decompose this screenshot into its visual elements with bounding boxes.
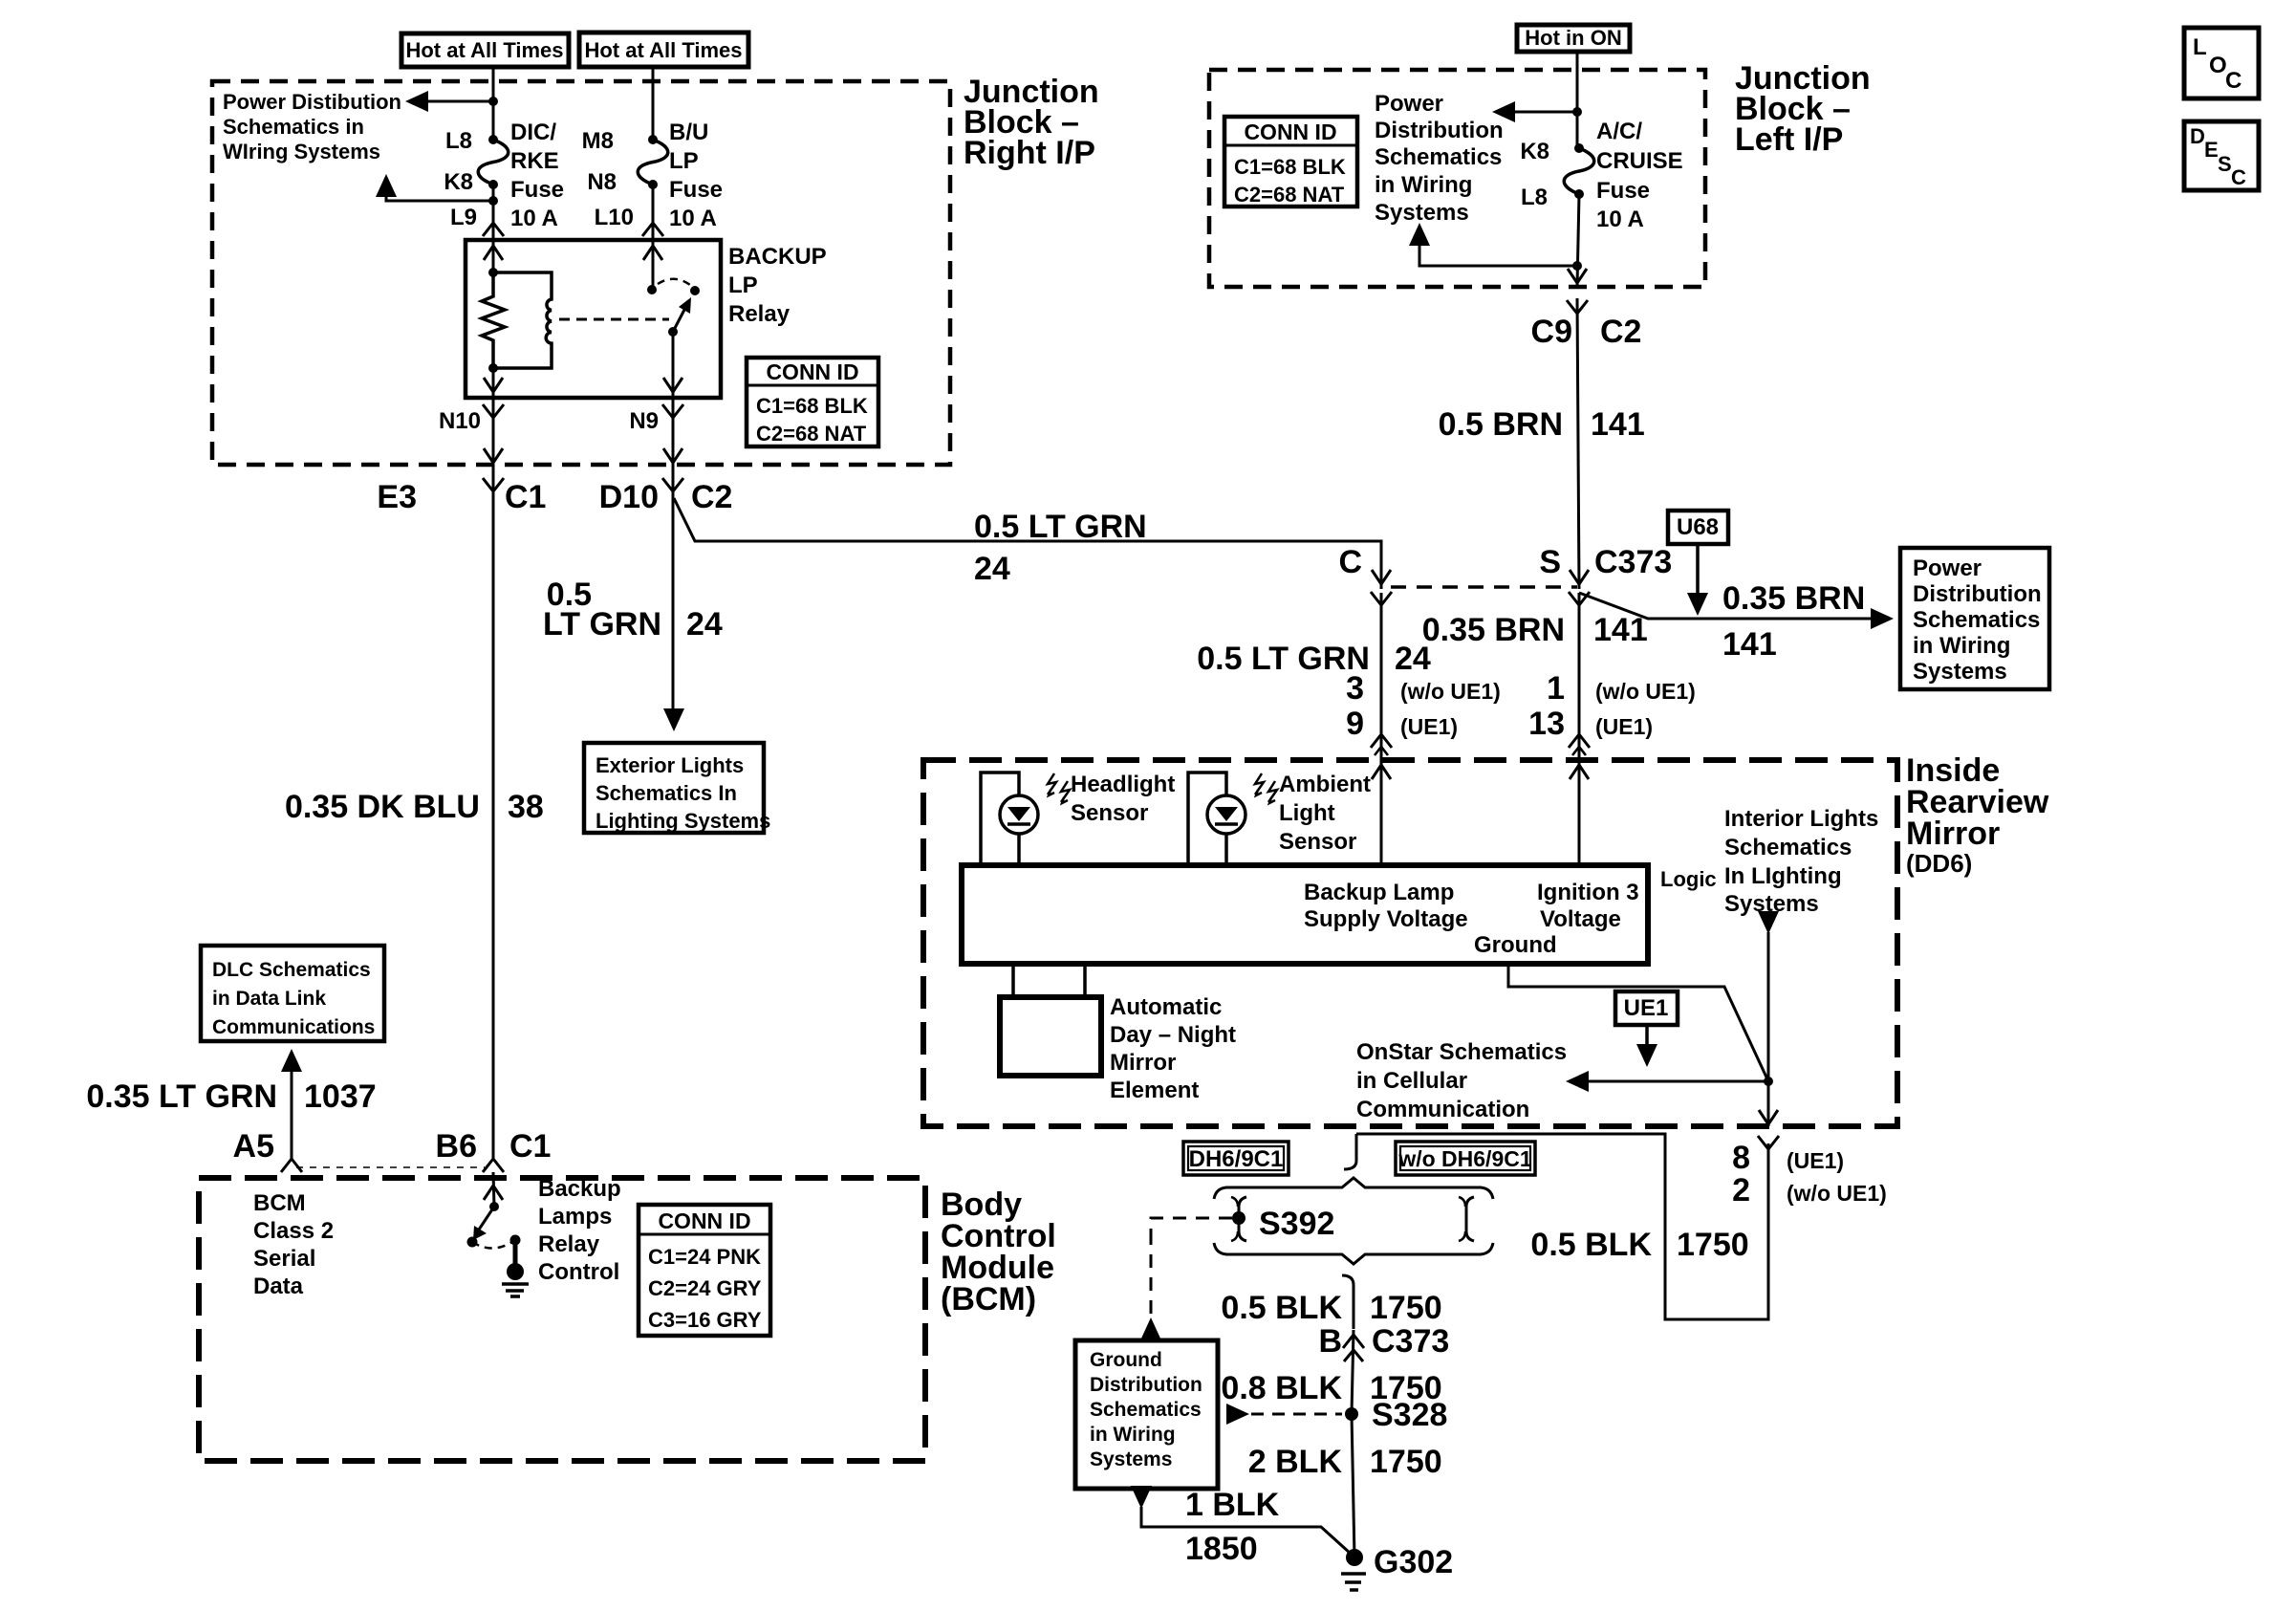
relay switch output wire xyxy=(672,332,675,398)
svg-text:L9: L9 xyxy=(450,205,477,230)
wire: Hot in ON to fuse A/C CRUISE xyxy=(1576,52,1579,148)
connector C373 pin B xyxy=(1318,1323,1449,1361)
svg-text:M8: M8 xyxy=(582,128,614,154)
svg-text:CONN ID: CONN ID xyxy=(1244,120,1336,144)
svg-text:Control: Control xyxy=(538,1259,619,1285)
connector N10 xyxy=(439,398,504,465)
svg-text:Headlight: Headlight xyxy=(1071,772,1175,797)
splice option brace (upper) xyxy=(1214,1178,1493,1199)
labels on mirror pin 3/9 wire xyxy=(1197,641,1501,742)
svg-text:N8: N8 xyxy=(587,169,617,195)
relay coil feed wire (left) xyxy=(492,240,495,272)
connector A5 xyxy=(233,1128,302,1172)
svg-text:O: O xyxy=(2209,53,2227,78)
svg-text:OnStar Schematics: OnStar Schematics xyxy=(1356,1039,1567,1065)
svg-text:(BCM): (BCM) xyxy=(941,1281,1036,1317)
connector C1 pin E3 xyxy=(377,478,546,515)
svg-text:L8: L8 xyxy=(1521,185,1548,210)
relay switch travel arc (dashed) xyxy=(658,279,690,285)
svg-text:141: 141 xyxy=(1591,406,1645,443)
relay switch fixed contact xyxy=(647,285,657,294)
svg-text:C1=24 PNK: C1=24 PNK xyxy=(648,1245,761,1269)
wire: Hot at All Times to fuse DIC/RKE xyxy=(492,67,495,140)
svg-text:C373: C373 xyxy=(1372,1323,1449,1360)
DESC index box xyxy=(2184,121,2259,190)
relay switch open contact xyxy=(690,286,700,295)
svg-text:Systems: Systems xyxy=(1913,659,2007,685)
svg-text:Communications: Communications xyxy=(212,1016,375,1038)
svg-text:Supply Voltage: Supply Voltage xyxy=(1304,906,1468,932)
svg-text:Communication: Communication xyxy=(1356,1097,1529,1122)
svg-text:Schematics: Schematics xyxy=(1724,835,1852,860)
svg-text:38: 38 xyxy=(508,789,544,825)
ambient light sensor label xyxy=(1279,772,1371,855)
svg-text:Logic: Logic xyxy=(1660,867,1717,891)
svg-text:1850: 1850 xyxy=(1185,1531,1258,1567)
svg-text:141: 141 xyxy=(1722,626,1777,663)
svg-text:C: C xyxy=(2225,68,2242,94)
relay switch pivot xyxy=(668,327,678,337)
svg-text:Right I/P: Right I/P xyxy=(964,135,1095,171)
svg-text:C2=24 GRY: C2=24 GRY xyxy=(648,1276,762,1300)
svg-text:C3=16 GRY: C3=16 GRY xyxy=(648,1308,762,1332)
svg-text:Schematics: Schematics xyxy=(1090,1399,1202,1421)
BCM switch input arrow xyxy=(484,1186,503,1200)
svg-text:BCM: BCM xyxy=(253,1190,306,1216)
svg-text:A/C/: A/C/ xyxy=(1596,119,1642,144)
relay coil output wire xyxy=(492,368,495,398)
inline connector C373 (dashed) xyxy=(1391,585,1577,589)
svg-text:L: L xyxy=(2193,34,2207,60)
reference box: Ground Distribution Schematics in Wiring Systems xyxy=(1075,1340,1218,1489)
svg-text:Systems: Systems xyxy=(1090,1448,1172,1470)
svg-text:A5: A5 xyxy=(233,1128,274,1165)
power label: Hot at All Times (left) xyxy=(401,33,569,67)
OnStar reference text xyxy=(1356,1039,1567,1122)
svg-text:LP: LP xyxy=(728,272,758,298)
connector N9 xyxy=(629,398,683,465)
svg-text:0.35 BRN: 0.35 BRN xyxy=(1722,580,1865,617)
svg-text:L10: L10 xyxy=(595,205,634,230)
svg-text:Hot at All Times: Hot at All Times xyxy=(584,38,742,62)
svg-text:C373: C373 xyxy=(1594,544,1672,580)
fuse name: A/C/ CRUISE Fuse 10 A xyxy=(1596,119,1683,232)
svg-text:CONN ID: CONN ID xyxy=(766,359,858,384)
junction block - left I/P (dashed box) xyxy=(1209,70,1705,287)
svg-text:D: D xyxy=(2190,124,2205,148)
svg-text:141: 141 xyxy=(1593,612,1648,648)
splice terminal (left, S392) xyxy=(1239,1197,1246,1241)
wire 2 BLK 1750 xyxy=(1352,1414,1354,1557)
mirror exit arrow at bottom edge xyxy=(1759,1110,1778,1124)
svg-text:Serial: Serial xyxy=(253,1246,315,1272)
ambient light sensor xyxy=(1188,773,1277,865)
wire label 0.5 LT GRN (horizontal) xyxy=(974,509,1147,587)
option flag UE1 xyxy=(1615,991,1678,1067)
connector: mirror pin 1/13 xyxy=(1569,734,1590,779)
reference box: Exterior Lights Schematics In Lighting Systems xyxy=(584,743,770,833)
svg-text:Interior Lights: Interior Lights xyxy=(1724,806,1878,832)
wire 0.5 BLK 1750 (mirror pin 8/2 loop) xyxy=(1356,1134,1768,1319)
svg-text:C9: C9 xyxy=(1531,314,1572,350)
branch labels 0.35 BRN 141 xyxy=(1722,580,1865,663)
svg-text:in Wiring: in Wiring xyxy=(1375,172,1472,198)
wire label 0.5 BLK 1750 (right loop) xyxy=(1530,1227,1748,1263)
connector: mirror pin 8/2 xyxy=(1732,1136,1887,1208)
CONN ID table (right I/P) xyxy=(747,358,878,446)
connector C1 pin B6 xyxy=(436,1128,552,1172)
wire: fuse N8 to connector L10 xyxy=(652,185,655,240)
reference box: Power Distribution Schematics in Wiring Systems (right) xyxy=(1900,548,2049,689)
svg-text:24: 24 xyxy=(686,606,723,642)
svg-text:Systems: Systems xyxy=(1375,200,1469,226)
ground wire inside mirror xyxy=(1508,964,1768,1081)
node: junction to power distribution arrow (upper) xyxy=(1572,107,1582,117)
svg-text:C1: C1 xyxy=(509,1128,551,1165)
svg-text:G302: G302 xyxy=(1374,1544,1453,1580)
svg-text:C: C xyxy=(2231,165,2246,189)
relay: BACKUP LP Relay box xyxy=(466,240,721,398)
relay coil (winding) xyxy=(493,272,552,368)
relay switch blade with arrow xyxy=(673,297,691,332)
connector C373 pin S xyxy=(1539,544,1672,605)
LOC index box xyxy=(2184,28,2259,98)
svg-text:in Cellular: in Cellular xyxy=(1356,1068,1467,1094)
svg-text:WIring Systems: WIring Systems xyxy=(223,140,380,163)
svg-text:0.8 BLK: 0.8 BLK xyxy=(1221,1370,1342,1406)
OnStar wire with arrow xyxy=(1566,1071,1768,1092)
svg-text:Distribution: Distribution xyxy=(1913,581,2042,607)
power label: Hot at All Times (right) xyxy=(579,33,748,67)
labels on mirror pin 1/13 wire xyxy=(1422,612,1696,742)
connector: mirror pin 3/9 xyxy=(1371,734,1392,779)
svg-text:Fuse: Fuse xyxy=(510,177,564,203)
svg-text:in Wiring: in Wiring xyxy=(1090,1424,1176,1446)
svg-text:2: 2 xyxy=(1732,1172,1750,1208)
wire 0.35 BRN 141 (C373 S to mirror pin 1/13) xyxy=(1578,593,1581,865)
fuse name: DIC/RKE Fuse 10 A xyxy=(510,120,564,231)
wire: fuse L8 down to box edge xyxy=(1577,194,1579,287)
svg-text:0.35 DK BLU: 0.35 DK BLU xyxy=(285,789,480,825)
CONN ID table (left I/P) xyxy=(1224,117,1357,207)
svg-text:0.5 LT GRN: 0.5 LT GRN xyxy=(974,509,1147,545)
svg-text:Backup: Backup xyxy=(538,1176,621,1202)
wire below lower brace with hook xyxy=(1342,1275,1354,1329)
connector C2 pin C9 xyxy=(1531,300,1642,350)
relay resistor (zigzag) xyxy=(482,272,505,368)
Inside Rearview Mirror (dashed box) xyxy=(923,760,1897,1126)
dashed link S392 to ground distribution reference xyxy=(1151,1218,1232,1231)
fuse name: B/U LP Fuse 10 A xyxy=(669,120,723,231)
mirror element label xyxy=(1110,994,1236,1103)
svg-text:K8: K8 xyxy=(444,169,473,195)
BCM class 2 serial data label xyxy=(253,1190,334,1299)
option box DH6/9C1 xyxy=(1183,1142,1289,1175)
svg-text:CRUISE: CRUISE xyxy=(1596,148,1683,174)
node: mirror ground junction xyxy=(1764,1077,1773,1086)
svg-text:0.35 LT GRN: 0.35 LT GRN xyxy=(86,1078,277,1115)
svg-text:1750: 1750 xyxy=(1370,1444,1442,1480)
svg-text:Data: Data xyxy=(253,1274,304,1299)
node: junction to lower power distribution arrow xyxy=(488,196,498,206)
reference box: DLC Schematics in Data Link Communications xyxy=(201,946,384,1041)
svg-text:9: 9 xyxy=(1346,706,1364,742)
svg-text:E: E xyxy=(2204,138,2219,162)
svg-text:S328: S328 xyxy=(1372,1397,1447,1433)
svg-text:Relay: Relay xyxy=(538,1231,600,1257)
svg-text:LP: LP xyxy=(669,148,699,174)
svg-text:Hot in ON: Hot in ON xyxy=(1525,26,1621,50)
svg-text:0.5 BRN: 0.5 BRN xyxy=(1439,406,1563,443)
mirror title: Inside Rearview Mirror (DD6) xyxy=(1906,752,2049,878)
headlight sensor label xyxy=(1071,772,1175,826)
svg-text:C: C xyxy=(1338,544,1362,580)
svg-text:Lamps: Lamps xyxy=(538,1204,612,1230)
svg-text:Sensor: Sensor xyxy=(1071,800,1148,826)
wire label 0.5 BLK 1750 (below S392) xyxy=(1221,1290,1441,1326)
module pin labels xyxy=(1304,880,1639,958)
relay name: BACKUP LP Relay xyxy=(728,244,827,327)
interior lights reference text xyxy=(1724,806,1878,917)
svg-text:Schematics: Schematics xyxy=(1375,144,1502,170)
svg-text:LT GRN: LT GRN xyxy=(543,606,661,642)
wire label 0.5 LT GRN 24 (vertical) xyxy=(543,577,723,642)
wire 0.5 BRN 141 (C9 to C373 S) xyxy=(1577,298,1579,589)
svg-text:Lighting Systems: Lighting Systems xyxy=(596,809,770,833)
wire/arrow: to power distribution schematics (upper) xyxy=(1492,101,1577,122)
connector L10 xyxy=(595,205,663,236)
svg-text:Distribution: Distribution xyxy=(1375,118,1504,143)
svg-text:Power Distibution: Power Distibution xyxy=(223,90,401,114)
svg-text:0.35 BRN: 0.35 BRN xyxy=(1422,612,1565,648)
svg-text:In LIghting: In LIghting xyxy=(1724,863,1842,889)
relay switch feed wire (right) xyxy=(652,240,655,290)
wire/arrow: to power distribution schematics (lower-left) xyxy=(376,174,493,201)
svg-text:(w/o UE1): (w/o UE1) xyxy=(1595,679,1696,704)
svg-text:Voltage: Voltage xyxy=(1540,906,1621,932)
svg-text:8: 8 xyxy=(1732,1140,1750,1176)
svg-text:13: 13 xyxy=(1528,706,1565,742)
svg-text:1037: 1037 xyxy=(304,1078,377,1115)
wire: fuse K8 to connector L9 xyxy=(492,185,495,240)
fuse DIC/RKE 10 A (pins L8/K8) xyxy=(478,135,509,189)
splice S328 xyxy=(1345,1407,1358,1421)
fuse B/U LP 10 A (pins M8/N8) xyxy=(638,135,668,189)
svg-text:2 BLK: 2 BLK xyxy=(1248,1444,1343,1480)
svg-text:0.5 LT GRN: 0.5 LT GRN xyxy=(1197,641,1370,677)
fuse A/C CRUISE 10 A (pins K8/L8) xyxy=(1564,143,1594,199)
svg-text:C1=68 BLK: C1=68 BLK xyxy=(1234,155,1346,179)
svg-text:Ground: Ground xyxy=(1090,1349,1162,1371)
CONN ID table (BCM) xyxy=(639,1205,770,1336)
junction block right I/P title xyxy=(964,74,1099,171)
svg-text:B: B xyxy=(1318,1323,1342,1360)
svg-text:(UE1): (UE1) xyxy=(1787,1148,1844,1173)
svg-text:Day – Night: Day – Night xyxy=(1110,1022,1236,1048)
svg-text:Mirror: Mirror xyxy=(1110,1050,1176,1076)
svg-text:L8: L8 xyxy=(445,128,472,154)
svg-text:Automatic: Automatic xyxy=(1110,994,1222,1020)
headlight sensor xyxy=(981,773,1070,865)
BCM title xyxy=(941,1186,1056,1317)
ground G302 xyxy=(1346,1549,1363,1566)
svg-text:1: 1 xyxy=(1547,670,1565,707)
svg-text:Class 2: Class 2 xyxy=(253,1218,334,1244)
svg-text:(DD6): (DD6) xyxy=(1906,849,1972,878)
svg-text:U68: U68 xyxy=(1677,514,1719,540)
svg-text:Power: Power xyxy=(1913,555,1982,581)
svg-text:C1: C1 xyxy=(505,479,546,515)
svg-text:UE1: UE1 xyxy=(1624,995,1669,1021)
svg-text:10 A: 10 A xyxy=(510,206,558,231)
svg-text:DH6/9C1: DH6/9C1 xyxy=(1189,1146,1284,1172)
reference text: Power Distribution Schematics in Wiring Systems (left I/P) xyxy=(1375,91,1504,226)
connector C2 pin D10 xyxy=(599,478,733,515)
relay coil-to-blade link (dashed) xyxy=(559,318,669,321)
splice option brace (lower) xyxy=(1214,1243,1493,1264)
svg-text:Schematics In: Schematics In xyxy=(596,781,737,805)
wire 0.8 BLK 1750 xyxy=(1352,1330,1354,1414)
connector C373 pin C xyxy=(1338,544,1392,605)
option box w/o DH6/9C1 xyxy=(1396,1142,1535,1175)
power label: Hot in ON xyxy=(1517,25,1630,52)
wire label 0.35 DK BLU 38 xyxy=(285,789,544,825)
svg-text:CONN ID: CONN ID xyxy=(658,1208,750,1233)
svg-text:3: 3 xyxy=(1346,670,1364,707)
svg-text:B/U: B/U xyxy=(669,120,708,145)
svg-text:Ambient: Ambient xyxy=(1279,772,1371,797)
mirror logic module (solid box) xyxy=(962,865,1648,964)
svg-text:Backup Lamp: Backup Lamp xyxy=(1304,880,1454,905)
svg-text:1 BLK: 1 BLK xyxy=(1185,1487,1280,1523)
svg-text:in Wiring: in Wiring xyxy=(1913,633,2010,659)
wire/arrow: to power distribution schematics (lower) xyxy=(1409,223,1577,266)
wire 0.35 DK BLU 38 (E3/C1 to BCM B6) xyxy=(492,465,495,1159)
svg-text:RKE: RKE xyxy=(510,148,559,174)
svg-text:K8: K8 xyxy=(1520,139,1549,164)
splice terminal (right) xyxy=(1466,1197,1474,1241)
option flag U68 xyxy=(1668,511,1728,616)
svg-text:(w/o UE1): (w/o UE1) xyxy=(1787,1181,1887,1206)
svg-text:1750: 1750 xyxy=(1677,1227,1749,1263)
wire label 0.5 BRN 141 xyxy=(1439,406,1645,443)
svg-text:DLC Schematics: DLC Schematics xyxy=(212,959,371,981)
svg-text:BACKUP: BACKUP xyxy=(728,244,827,270)
BCM internal dashed link A5-B6 xyxy=(296,1166,485,1168)
svg-text:Fuse: Fuse xyxy=(1596,178,1650,204)
svg-text:Exterior Lights: Exterior Lights xyxy=(596,753,744,777)
wire from interior lights reference xyxy=(1758,911,1779,1126)
branch wire 0.35 BRN 141 to power distribution xyxy=(1579,593,1894,629)
wire 0.5 LT GRN 24 (C373 C to mirror pin 3/9) xyxy=(1380,593,1383,865)
dashed link from ground distribution reference to S328 xyxy=(1226,1404,1342,1425)
reference text: Power Distribution Schematics in Wiring Systems (top-left) xyxy=(223,90,401,163)
wire: Hot at All Times to fuse B/U xyxy=(652,67,655,140)
wire 0.5 LT GRN 24 (horizontal branch to mirror pin C) xyxy=(674,498,1381,589)
svg-text:in Data Link: in Data Link xyxy=(212,988,326,1010)
svg-text:Power: Power xyxy=(1375,91,1443,117)
svg-text:Fuse: Fuse xyxy=(669,177,723,203)
junction block - right I/P (dashed box) xyxy=(212,81,950,465)
svg-text:S: S xyxy=(1539,544,1561,580)
junction block left I/P title xyxy=(1735,60,1871,158)
svg-text:Ignition 3: Ignition 3 xyxy=(1537,880,1639,905)
svg-text:Schematics: Schematics xyxy=(1913,607,2040,633)
BCM switch: backup lamps relay control xyxy=(489,1202,499,1211)
svg-text:D10: D10 xyxy=(599,479,659,515)
svg-text:E3: E3 xyxy=(377,479,417,515)
svg-text:(UE1): (UE1) xyxy=(1595,714,1653,739)
svg-text:Hot at All Times: Hot at All Times xyxy=(405,38,563,62)
svg-text:Sensor: Sensor xyxy=(1279,829,1356,855)
svg-text:B6: B6 xyxy=(436,1128,477,1165)
svg-text:Left I/P: Left I/P xyxy=(1735,121,1843,158)
svg-text:w/o DH6/9C1: w/o DH6/9C1 xyxy=(1397,1146,1532,1171)
svg-text:Schematics in: Schematics in xyxy=(223,115,364,139)
svg-text:Relay: Relay xyxy=(728,301,791,327)
svg-text:24: 24 xyxy=(974,551,1010,587)
wire 0.35 LT GRN 1037 (to DLC) xyxy=(281,1049,302,1159)
svg-text:10 A: 10 A xyxy=(669,206,717,231)
svg-text:N9: N9 xyxy=(629,408,659,434)
svg-text:C2=68 NAT: C2=68 NAT xyxy=(756,422,867,446)
svg-text:Light: Light xyxy=(1279,800,1335,826)
svg-text:DIC/: DIC/ xyxy=(510,120,556,145)
svg-text:0.5 BLK: 0.5 BLK xyxy=(1530,1227,1652,1263)
BCM internal ground xyxy=(513,1240,518,1266)
svg-text:C2: C2 xyxy=(1600,314,1641,350)
svg-text:C2: C2 xyxy=(691,479,732,515)
svg-text:10 A: 10 A xyxy=(1596,207,1644,232)
svg-text:S: S xyxy=(2218,152,2232,176)
svg-text:N10: N10 xyxy=(439,408,481,434)
svg-text:S392: S392 xyxy=(1259,1206,1334,1242)
svg-text:1750: 1750 xyxy=(1370,1290,1442,1326)
connector L9 xyxy=(450,205,504,236)
svg-text:(w/o UE1): (w/o UE1) xyxy=(1400,679,1501,704)
svg-text:Element: Element xyxy=(1110,1078,1199,1103)
wire 0.5 LT GRN 24 (D10/C2 down to exterior lights) xyxy=(672,465,675,710)
backup lamps relay control label xyxy=(538,1176,621,1285)
svg-text:0.5 BLK: 0.5 BLK xyxy=(1221,1290,1342,1326)
automatic day-night mirror element box xyxy=(1000,964,1101,1076)
svg-text:Ground: Ground xyxy=(1474,932,1557,958)
svg-text:C2=68 NAT: C2=68 NAT xyxy=(1234,183,1345,207)
splice S392 node xyxy=(1232,1211,1245,1225)
svg-text:Distribution: Distribution xyxy=(1090,1374,1202,1396)
wire 1 BLK 1850 (to ground distribution) xyxy=(1131,1486,1351,1554)
node: junction to power distribution arrow xyxy=(488,97,498,106)
Body Control Module (dashed box) xyxy=(199,1178,925,1461)
svg-text:(UE1): (UE1) xyxy=(1400,714,1458,739)
node: junction to power distribution arrow (lower) xyxy=(1572,261,1582,271)
svg-text:Mirror: Mirror xyxy=(1906,816,2000,852)
wire/arrow: to power distribution schematics (left) xyxy=(405,91,493,112)
svg-text:C1=68 BLK: C1=68 BLK xyxy=(756,394,868,418)
